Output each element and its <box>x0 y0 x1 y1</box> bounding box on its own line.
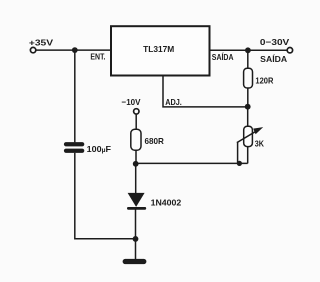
svg-text:SAÍDA: SAÍDA <box>212 52 234 62</box>
svg-text:3K: 3K <box>255 139 265 149</box>
svg-text:680R: 680R <box>145 136 164 146</box>
svg-text:ADJ.: ADJ. <box>165 97 182 107</box>
svg-text:100µF: 100µF <box>87 144 111 154</box>
svg-text:−10V: −10V <box>122 97 141 107</box>
svg-text:SAÍDA: SAÍDA <box>260 54 287 64</box>
svg-text:TL317M: TL317M <box>143 44 174 54</box>
svg-text:0−30V: 0−30V <box>260 37 290 47</box>
svg-text:120R: 120R <box>255 75 273 85</box>
svg-text:1N4002: 1N4002 <box>151 197 182 207</box>
svg-text:+35V: +35V <box>29 37 54 47</box>
svg-text:ENT.: ENT. <box>90 52 105 62</box>
